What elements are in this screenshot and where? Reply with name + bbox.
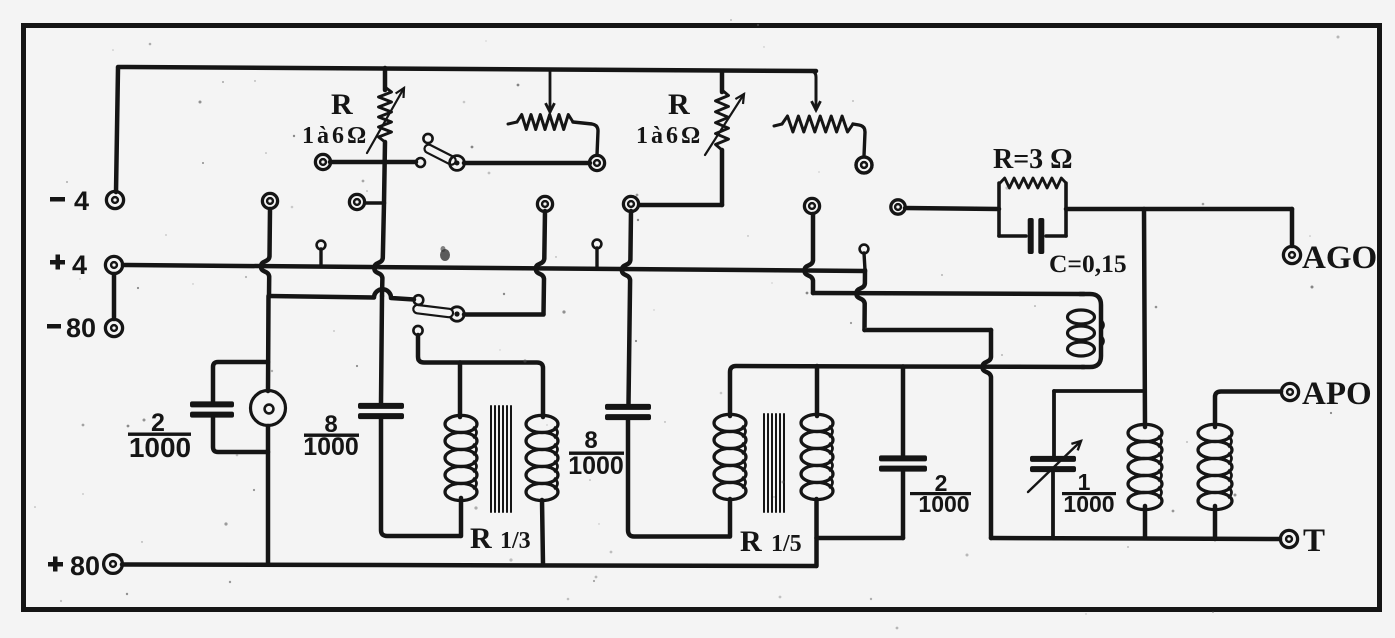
wire junction node at y296 to grid capacitor (381, 296, 382, 403)
wire S2 lower stud to transformer T1 (416, 335, 419, 360)
terminal circle node pot1 bottom (589, 155, 604, 170)
transformer T1 right winding (526, 415, 558, 432)
transformer T1 left winding (445, 415, 477, 432)
wire tube V1 grid down (hops +4 rail) (261, 209, 270, 296)
wire switch S1 right (464, 161, 590, 166)
wire T1 right winding bottom (542, 500, 543, 564)
contact stud upper switch S2 (414, 295, 424, 305)
svg-text:1/3: 1/3 (500, 528, 531, 554)
wire C2 bottom to transformer T1 (381, 419, 460, 536)
svg-text:1000: 1000 (129, 432, 191, 463)
wire T2 top bracket / coupling line (730, 366, 1084, 416)
tube V2 grid post (537, 196, 552, 211)
pivot of switch S2 (450, 307, 464, 321)
wire +4 to -80 tie (112, 274, 117, 319)
svg-text:R: R (668, 88, 690, 121)
wire T2 bottom branch to C4 (817, 536, 904, 541)
wire AGO line down to transformer T3 (1144, 209, 1145, 427)
wire T1 left winding bottom (459, 498, 464, 536)
wire tube V2 plate down (hops +4 rail) (622, 211, 631, 404)
wire R2 down (720, 150, 725, 205)
potentiometer P1 zigzag (517, 115, 573, 130)
label -80 (47, 324, 61, 329)
svg-text:1000: 1000 (918, 491, 969, 517)
wire V3 filament stub down (864, 253, 865, 270)
resistor R1 rheostat lead top (383, 68, 388, 90)
wire T3 right winding top (1215, 392, 1281, 428)
terminal -4 (106, 191, 123, 208)
transformer T1 core (490, 406, 492, 512)
resistor R1 (R 1a6 ohm) zigzag (379, 87, 392, 142)
wire C6 top vertical (1052, 391, 1056, 456)
tube V1 grid post (262, 193, 277, 208)
svg-text:80: 80 (70, 551, 100, 581)
label +80 (48, 562, 63, 567)
wire C4 bottom (901, 471, 906, 538)
wire T2 secondary top stub (815, 366, 820, 416)
wire V2 grid horizontal to S2 pivot (464, 312, 544, 317)
terminal +4 (105, 256, 122, 273)
value C2 fraction bar (304, 434, 359, 437)
lever of switch S1 (423, 143, 457, 166)
tube V1 filament post (317, 241, 326, 250)
svg-text:4: 4 (74, 186, 89, 216)
wire T1 top bracket (418, 335, 543, 417)
wire V3 output to RC group (905, 208, 999, 209)
transformer T2 left winding (714, 414, 746, 431)
pot P1 right lead (573, 122, 598, 155)
potentiometer P2 zigzag (782, 116, 853, 132)
wire -4 terminal up to top rail (116, 68, 118, 192)
ink smudge blot (440, 249, 450, 261)
capacitor C1 plates (190, 401, 234, 407)
RC group right vertical (1064, 183, 1068, 236)
svg-text:4: 4 (72, 250, 87, 280)
svg-text:1000: 1000 (303, 433, 359, 461)
wire C line down from +4 end (hops plate line) (856, 270, 865, 330)
RC group bottom edge left (999, 234, 1026, 238)
wire T2 right winding bottom (814, 499, 819, 566)
wire C1 top bracket (213, 362, 268, 403)
wire telephone rail to T (991, 538, 1280, 539)
contact stud lower switch S2 (413, 326, 422, 335)
svg-text:C=0,15: C=0,15 (1049, 249, 1127, 278)
wire +4 rail (123, 265, 865, 271)
capacitor C2 plates (358, 403, 404, 409)
wire tube V2 grid down to switch S2 (hops +4 rail) (536, 211, 545, 314)
terminal -80 (105, 319, 122, 336)
pivot of switch S1 (450, 156, 465, 171)
svg-text:AGO: AGO (1302, 240, 1377, 276)
pot P1 left lead (508, 122, 517, 124)
value C6 fraction bar (1062, 492, 1116, 495)
transformer T3 right winding (1198, 424, 1232, 441)
pot P2 left lead (774, 124, 782, 126)
wire AGO drop (1290, 209, 1295, 246)
arrowhead pot P2 wiper (815, 84, 818, 110)
tube V3 output post (891, 200, 905, 214)
value C3 fraction bar (569, 452, 624, 455)
jack J1 body (251, 391, 286, 426)
wire pot P1 wiper from top rail (549, 69, 552, 112)
wire D line down to telephone rail (hops coupling line) (983, 330, 992, 538)
wire C4 top (901, 367, 906, 457)
tube V3 filament post (860, 245, 869, 254)
svg-text:T: T (1303, 523, 1325, 559)
svg-text:1/5: 1/5 (771, 531, 802, 557)
resistor R2 rheostat lead top (720, 71, 725, 92)
reaction coil L1 (horizontal) (1080, 294, 1101, 367)
value C4 fraction bar (910, 492, 971, 495)
capacitor C6 plates (1030, 456, 1076, 462)
svg-text:8: 8 (584, 427, 597, 454)
tube V2 plate post (623, 196, 638, 211)
wire V3 plate down (hops +4 rail) (805, 214, 814, 293)
wire T2 left winding bottom (728, 499, 733, 537)
RC group bottom edge right (1046, 234, 1066, 238)
wire R1 down to +4 crossing (hops +4 rail) (374, 203, 384, 296)
svg-text:1à6Ω: 1à6Ω (636, 123, 703, 149)
label -4 (50, 197, 65, 202)
wire tube V1 plate stub (365, 201, 382, 205)
svg-text:R: R (740, 525, 762, 558)
svg-text:R: R (470, 522, 492, 555)
wire C1 bottom bracket (213, 417, 268, 452)
wire grid link y297 from jack wire to S2 upper stud (hops R1 wire) (269, 289, 414, 299)
resistor R3 (3 ohm) zigzag (1000, 178, 1066, 188)
terminal T (1280, 530, 1297, 547)
svg-text:1000: 1000 (1063, 491, 1114, 517)
capacitor C5 (0,15) plates (1028, 218, 1034, 254)
pot P2 right lead (853, 124, 865, 156)
svg-text:1000: 1000 (568, 452, 624, 480)
wire below jack to +80 rail (266, 426, 271, 564)
capacitor C3 plates (605, 404, 651, 410)
knob of switch S1 lever (423, 134, 432, 143)
wire C6 box top (1054, 389, 1144, 393)
RC group left vertical (997, 183, 1001, 236)
wire T1 primary top stub (458, 363, 463, 418)
arrow on rheostat R1 (367, 88, 404, 153)
wire switch S1 left (330, 160, 416, 165)
arrow across C6 (variable) (1028, 441, 1081, 492)
contact stud switch S1 (416, 158, 425, 167)
wire T3 right winding bottom (1213, 506, 1218, 539)
paper speckle noise (decorative) (463, 101, 466, 104)
terminal circle tube1 filament post (315, 154, 330, 169)
svg-text:80: 80 (66, 313, 96, 343)
tube V1 plate post (349, 194, 364, 209)
wire R1 down through switch row (384, 142, 385, 203)
wire tube V1 filament stub to +4 (319, 249, 322, 266)
svg-text:R: R (331, 88, 353, 121)
terminal AGO (1283, 246, 1300, 263)
tube V2 filament post (593, 240, 602, 249)
tube V3 grid post (from pot P2) (856, 157, 872, 173)
arrow on rheostat R2 (705, 94, 744, 155)
value C1 fraction bar (128, 433, 191, 436)
wire V1 node down to jack (266, 296, 271, 391)
transformer T2 right winding (801, 414, 833, 431)
wire D line horizontal (865, 328, 992, 333)
resistor R2 (R 1a6 ohm) zigzag (716, 90, 729, 150)
label +4 (50, 260, 65, 265)
wire top rail (118, 67, 816, 71)
wire RC output to AGO (1066, 207, 1292, 212)
svg-text:R=3 Ω: R=3 Ω (993, 144, 1073, 175)
wire pot P2 wiper from top rail corner (810, 71, 816, 100)
svg-text:1à6Ω: 1à6Ω (302, 123, 369, 149)
wire +80 rail (122, 565, 816, 567)
transformer T2 core (763, 414, 765, 512)
lever of switch S2 (413, 304, 454, 317)
transformer T3 left winding (1128, 424, 1162, 441)
terminal circle node pot2 bottom (856, 157, 872, 173)
terminal APO (1281, 383, 1298, 400)
wire T3 left winding bottom (1143, 506, 1148, 538)
wire C6 bottom vertical (1051, 471, 1055, 538)
wire plate line B to reaction coil (813, 293, 1084, 294)
wire C3 down to transformer T2 (628, 420, 729, 537)
wire tube V2 filament stub to +4 (595, 248, 598, 269)
wire R2 bottom to tube2 plate post (640, 203, 722, 208)
tube V3 plate post (804, 198, 819, 213)
svg-text:APO: APO (1302, 376, 1372, 412)
terminal +80 (104, 555, 123, 574)
capacitor C4 plates (879, 455, 927, 461)
